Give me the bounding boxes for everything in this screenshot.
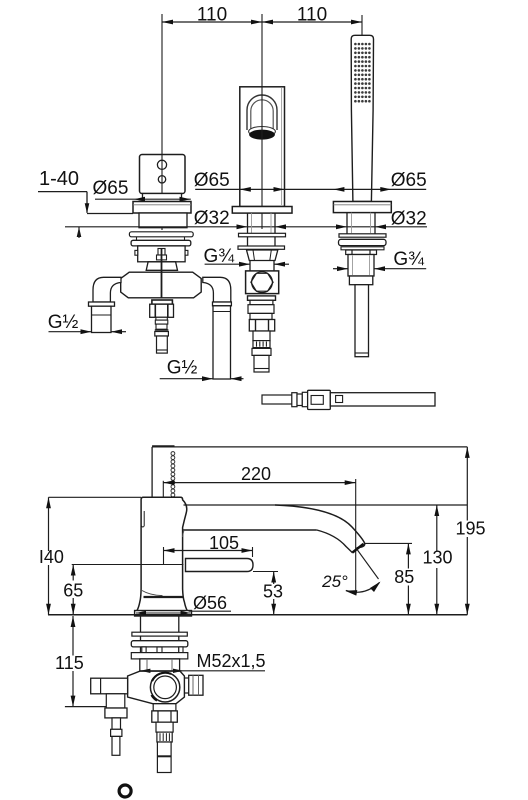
svg-text:195: 195 <box>455 519 485 539</box>
flange right unit <box>333 202 391 213</box>
rear extension line <box>151 447 153 497</box>
flange Ø65 left unit <box>133 202 191 214</box>
svg-text:I40: I40 <box>39 547 64 567</box>
dimension 65 <box>63 565 83 615</box>
washers middle unit <box>238 233 286 249</box>
dimension M52x1,5 <box>140 651 265 673</box>
deck line <box>48 614 467 616</box>
dimension Ø65 middle and right <box>194 170 427 192</box>
svg-text:Ø65: Ø65 <box>93 178 129 199</box>
body outline right <box>141 497 187 610</box>
shower spray face dots <box>354 43 371 103</box>
left elbow <box>93 277 121 302</box>
svg-text:115: 115 <box>55 653 84 673</box>
labels Ø32 <box>194 208 427 229</box>
spout curve lower <box>183 530 353 553</box>
svg-text:220: 220 <box>241 464 271 484</box>
svg-text:25°: 25° <box>321 572 348 591</box>
svg-text:53: 53 <box>263 582 283 602</box>
mounting plate left unit <box>131 240 191 246</box>
center line middle unit <box>261 87 263 229</box>
bottom outlet stack <box>152 704 178 773</box>
tube Ø32 right unit <box>347 213 375 234</box>
hand shower body <box>351 35 373 201</box>
right elbow <box>203 277 231 302</box>
neck left unit <box>146 262 177 271</box>
svg-text:Ø65: Ø65 <box>391 170 427 191</box>
nut right unit <box>346 250 377 255</box>
svg-text:65: 65 <box>63 581 83 601</box>
53 reference line <box>253 571 278 573</box>
dimension line Ø32 shared <box>65 224 427 229</box>
washer plate left unit <box>129 232 193 241</box>
valve body housing <box>128 671 185 704</box>
shank hex section <box>140 659 180 671</box>
dimension 1-40 clamping range <box>38 168 133 238</box>
thread G3/4 middle unit <box>250 261 274 271</box>
svg-text:110: 110 <box>197 4 227 25</box>
joystick lever <box>186 559 254 572</box>
svg-text:G½: G½ <box>48 312 79 333</box>
handle body left unit <box>140 155 186 194</box>
svg-text:85: 85 <box>394 567 414 587</box>
85 reference line <box>364 542 412 544</box>
svg-text:G¾: G¾ <box>393 249 425 270</box>
dimension 220 <box>163 464 355 595</box>
body skirt <box>142 591 184 598</box>
spout curve outer <box>275 505 365 553</box>
extension line right unit <box>361 15 363 35</box>
extension line left unit center <box>161 14 163 155</box>
dimension 25 degrees arc <box>321 572 380 596</box>
dimension Ø56 <box>136 593 231 615</box>
check valve stack middle unit <box>248 296 276 372</box>
dimension 85 <box>394 543 414 614</box>
65 reference line <box>72 564 184 566</box>
svg-text:Ø65: Ø65 <box>194 170 230 191</box>
center line left unit <box>161 155 163 231</box>
extension line middle unit <box>261 14 263 87</box>
hose connector piece <box>262 390 435 409</box>
dimension 110 left + 110 right, top <box>162 4 362 25</box>
right port hex <box>184 675 203 695</box>
svg-text:Ø32: Ø32 <box>194 208 230 229</box>
body step detail <box>141 511 144 527</box>
left port <box>91 678 128 694</box>
svg-text:1-40: 1-40 <box>39 168 79 190</box>
svg-text:G½: G½ <box>167 358 198 379</box>
diverter cartridge circle <box>150 673 179 702</box>
washer plates right unit <box>339 234 387 250</box>
body section left unit <box>139 213 187 228</box>
spout arch detail <box>247 95 277 130</box>
spout top edge / 130 reference line <box>184 504 468 506</box>
dimension 115 <box>55 616 112 707</box>
nut middle unit <box>247 250 278 261</box>
base plate <box>135 611 192 617</box>
svg-text:Ø56: Ø56 <box>193 593 227 613</box>
body outline left <box>137 500 141 611</box>
shower hose tail tube <box>355 285 369 357</box>
top reference line <box>152 445 467 448</box>
mounting washers bottom figure <box>131 632 188 659</box>
dimension Ø65 left unit <box>93 178 191 202</box>
dimension 195 <box>455 447 485 615</box>
tube Ø32 middle unit <box>248 213 276 250</box>
manifold body left unit <box>121 249 202 298</box>
dimension G3/4 right <box>333 249 426 271</box>
center outlet stack left unit <box>150 300 174 353</box>
svg-text:Ø32: Ø32 <box>391 208 427 229</box>
dimension G1/2 left <box>48 312 126 334</box>
mounting body left unit <box>135 246 188 262</box>
left port tail pipe <box>105 694 127 756</box>
dimension 130 <box>422 505 452 615</box>
right inlet pipe G1/2 <box>213 302 232 379</box>
dimension G3/4 middle <box>203 246 289 267</box>
left inlet pipe G1/2 <box>89 302 115 333</box>
dimension 105 <box>164 533 253 565</box>
dimension I40 <box>39 497 141 615</box>
lift rod bead chain <box>171 452 175 497</box>
spout body middle unit <box>240 87 285 207</box>
handle screws <box>157 160 166 183</box>
svg-text:110: 110 <box>297 4 327 25</box>
threaded shank M52 <box>141 616 179 659</box>
thread tube G3/4 right unit <box>348 255 374 277</box>
dimension 53 <box>263 572 283 615</box>
svg-text:M52x1,5: M52x1,5 <box>196 651 265 671</box>
handle base <box>143 194 182 202</box>
spout aerator ellipse <box>249 127 276 140</box>
svg-text:105: 105 <box>209 533 239 553</box>
spout root fillet <box>183 530 184 537</box>
hose nipple block right unit <box>349 276 372 285</box>
svg-text:130: 130 <box>422 548 452 568</box>
flange middle unit <box>232 207 292 214</box>
diverter valve middle unit <box>246 271 279 294</box>
water stream ray 25 deg <box>356 548 379 579</box>
dimension G1/2 bottom <box>160 358 244 382</box>
o-ring <box>119 785 131 797</box>
